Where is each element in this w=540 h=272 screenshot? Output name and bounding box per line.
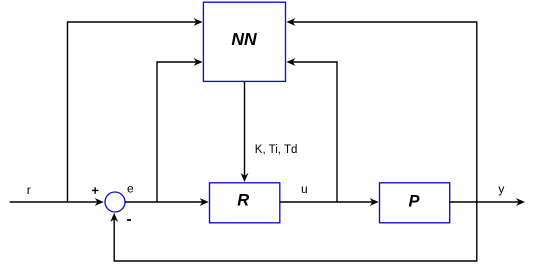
wire branch e to NN input 2 — [157, 58, 203, 202]
block P (plant) — [380, 183, 450, 223]
svg-text:NN: NN — [231, 29, 257, 49]
wire branch y to NN input 3 (right side, top) — [286, 18, 476, 202]
svg-text:K, Ti, Td: K, Ti, Td — [255, 144, 298, 156]
wire feedback y to summing junction (minus input) — [110, 202, 477, 261]
svg-text:R: R — [237, 191, 249, 209]
wire u from R to P — [280, 198, 379, 206]
svg-text:P: P — [408, 192, 420, 210]
wire branch u to NN input 4 (right side) — [286, 58, 337, 202]
label minus sign — [127, 219, 131, 221]
svg-text:y: y — [498, 182, 504, 196]
label plus sign — [92, 187, 98, 194]
wire r input to summing junction — [10, 198, 104, 206]
wire y output from P — [450, 198, 525, 206]
wire branch r to NN input 1 — [68, 18, 203, 202]
svg-text:u: u — [301, 182, 308, 196]
summing junction — [105, 192, 125, 212]
svg-text:e: e — [127, 182, 134, 196]
wire NN output K,Ti,Td to R — [241, 82, 249, 182]
block NN (neural network) — [203, 2, 285, 81]
block R (regulator) — [210, 183, 280, 223]
svg-text:r: r — [27, 183, 31, 197]
wire e from junction to R — [125, 198, 209, 206]
